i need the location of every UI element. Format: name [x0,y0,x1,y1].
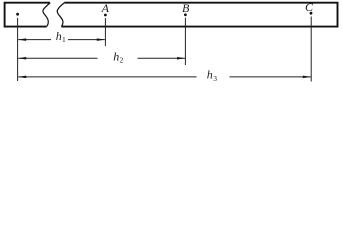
bar right piece outline [61,3,337,27]
svg-text:h: h [207,68,213,82]
svg-text:C: C [305,0,314,14]
node left dot [16,13,19,16]
extension line B [184,18,186,65]
svg-text:B: B [182,1,190,15]
dimension h3 line [18,76,196,78]
node C dot [310,12,313,15]
svg-text:3: 3 [213,74,217,83]
bar break squiggle 1 [43,3,50,27]
svg-text:h: h [113,50,119,64]
svg-text:h: h [56,29,62,43]
dimension h2 line [18,57,97,59]
extension line left [17,18,19,81]
dimension h1 line [18,39,51,41]
svg-text:2: 2 [120,55,124,64]
bar left piece outline [5,3,51,27]
bar break squiggle 2 [57,3,64,27]
svg-text:1: 1 [62,35,66,44]
extension line A [104,18,106,46]
node B dot [184,13,187,16]
node A dot [104,14,107,17]
extension line C [310,17,312,82]
svg-text:A: A [101,1,110,15]
